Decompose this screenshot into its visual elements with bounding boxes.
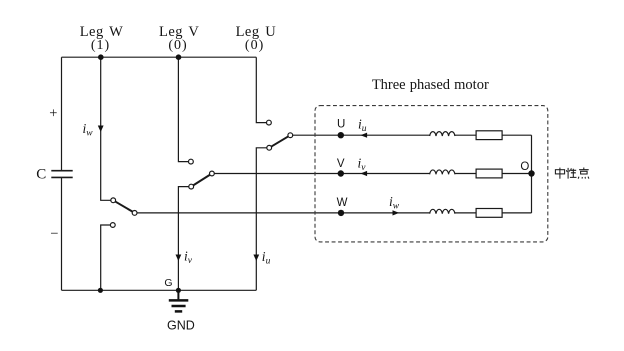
svg-text:iw: iw: [389, 194, 400, 212]
svg-text:O: O: [520, 161, 529, 173]
svg-text:U: U: [337, 118, 345, 130]
svg-text:C: C: [36, 167, 47, 183]
svg-text:+: +: [49, 106, 58, 122]
svg-text:iv: iv: [184, 249, 193, 267]
svg-text:iu: iu: [262, 249, 271, 267]
svg-text:GND: GND: [167, 319, 195, 333]
svg-text:iu: iu: [358, 117, 367, 135]
svg-text:W: W: [337, 197, 348, 209]
svg-text:(0): (0): [245, 38, 264, 53]
svg-text:iw: iw: [83, 121, 94, 139]
svg-text:V: V: [337, 158, 345, 170]
svg-text:G: G: [164, 277, 172, 289]
svg-text:(0): (0): [168, 38, 187, 53]
svg-text:Three phased motor: Three phased motor: [372, 77, 489, 93]
svg-text:−: −: [50, 226, 59, 242]
svg-text:(1): (1): [91, 38, 110, 53]
svg-text:iv: iv: [358, 156, 367, 174]
